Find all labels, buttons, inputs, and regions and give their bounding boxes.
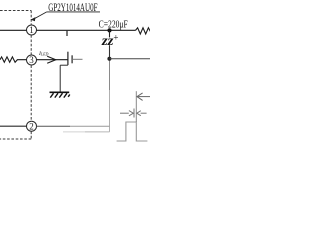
svg-text:3: 3 (29, 55, 34, 65)
svg-text:2: 2 (29, 121, 34, 131)
svg-text:C=220μF: C=220μF (99, 18, 128, 30)
svg-text:1: 1 (29, 25, 34, 35)
svg-text:ILED: ILED (38, 51, 49, 57)
svg-text:+: + (113, 32, 118, 42)
svg-text:zz: zz (101, 33, 115, 48)
